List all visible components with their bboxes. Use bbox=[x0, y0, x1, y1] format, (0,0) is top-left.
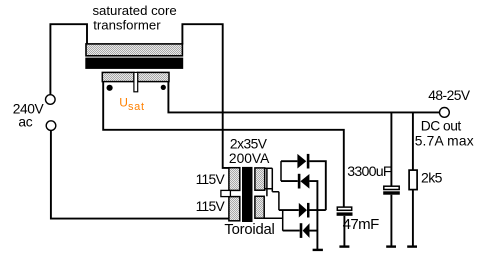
wire: D3 anode lead bbox=[279, 209, 299, 211]
svg-text:2k5: 2k5 bbox=[421, 170, 443, 186]
svg-text:DC out: DC out bbox=[421, 118, 462, 133]
capacitor C2 47mF positive plate bbox=[337, 207, 351, 210]
wire: D1 anode lead bbox=[281, 160, 297, 162]
terminal: 240V top bbox=[46, 95, 56, 105]
wire: 240V top terminal to T1 primary left bbox=[50, 24, 87, 95]
wire: D2 cathode lead bbox=[281, 180, 298, 182]
svg-text:ac: ac bbox=[18, 115, 32, 130]
phase dot left bbox=[107, 85, 113, 91]
wire: T1 secondary left down and right to 47mF top bbox=[103, 82, 344, 208]
rail stub under C2 bbox=[339, 245, 349, 247]
svg-text:transformer: transformer bbox=[93, 17, 161, 32]
svg-text:5.7A max: 5.7A max bbox=[415, 134, 474, 149]
terminal: DC output bbox=[440, 108, 450, 118]
rail stub under R1 bbox=[407, 245, 417, 247]
capacitor C1 3300uF positive plate bbox=[384, 186, 399, 189]
svg-text:47mF: 47mF bbox=[343, 216, 380, 233]
wire: D3 cathode to junction bbox=[310, 209, 326, 211]
svg-text:200VA: 200VA bbox=[229, 151, 270, 166]
transformer T1 primary winding bbox=[86, 44, 182, 56]
transformer T2 secondary winding lower 35V bbox=[255, 196, 264, 218]
capacitor C2 47mF negative plate bbox=[337, 212, 353, 215]
svg-text:Toroidal: Toroidal bbox=[224, 222, 274, 238]
rail stub under C1 bbox=[386, 245, 396, 247]
wire: C2 bottom to rail stub bbox=[343, 216, 345, 247]
phase dot right bbox=[161, 85, 166, 90]
terminal: 240V bottom bbox=[46, 121, 56, 131]
wire: T1 primary right to toroidal primary top bbox=[182, 24, 229, 168]
resistor R1 2k5 bbox=[409, 170, 417, 190]
transformer T1 secondary winding left half bbox=[102, 72, 134, 81]
wire: D4 cathode lead bbox=[283, 230, 300, 232]
wire: D4 anode to negative rail bbox=[310, 230, 318, 232]
transformer T2 toroidal primary winding lower 115V bbox=[229, 197, 240, 221]
transformer T1 core bbox=[85, 58, 183, 69]
diode D1 bbox=[297, 154, 306, 169]
wire: resistor top to output rail bbox=[412, 112, 414, 170]
svg-text:saturated core: saturated core bbox=[92, 3, 176, 18]
svg-text:3300uF: 3300uF bbox=[347, 164, 392, 180]
capacitor C1 3300uF negative plate bbox=[383, 191, 400, 194]
svg-text:115V: 115V bbox=[196, 172, 226, 187]
wire: secondary upper terminal steps bbox=[265, 168, 279, 196]
wire: T1 secondary right to DC output rail bbox=[168, 82, 439, 113]
diode D3 bbox=[299, 203, 307, 218]
transformer T1 secondary winding right half bbox=[137, 72, 169, 81]
wire: resistor bottom to rail stub bbox=[412, 190, 414, 247]
svg-text:48-25V: 48-25V bbox=[428, 88, 471, 103]
rail stub under bridge bbox=[313, 249, 323, 251]
wire: upper winding to D1/D2 connector bbox=[280, 161, 282, 181]
transformer T1 secondary center notch bbox=[134, 72, 138, 91]
transformer T2 primary series link tab bbox=[221, 190, 231, 196]
wire: D2 anode down to negative rail stub bbox=[309, 181, 317, 250]
diode D4 bbox=[300, 223, 303, 238]
transformer T2 toroidal primary winding upper 115V bbox=[229, 168, 240, 191]
wire: 240V bottom terminal to toroidal primary bottom bbox=[51, 131, 229, 219]
wire: C1 bottom to rail stub bbox=[390, 195, 392, 247]
transformer T2 secondary winding upper 35V bbox=[255, 168, 265, 190]
svg-text:2x35V: 2x35V bbox=[230, 137, 268, 152]
wire: D1 cathode to junction bbox=[309, 161, 325, 210]
transformer T2 toroidal core bbox=[242, 167, 253, 222]
diode D2 bbox=[298, 174, 301, 189]
svg-text:115V: 115V bbox=[196, 199, 226, 214]
wire: secondary lower terminal steps bbox=[264, 192, 283, 231]
wire: C1 top to output rail bbox=[390, 112, 392, 186]
